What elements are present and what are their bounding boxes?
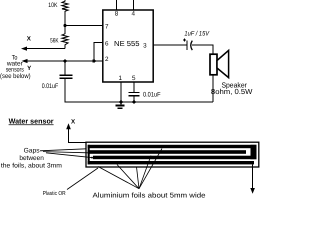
foil right vertical	[251, 145, 257, 159]
speaker cone	[217, 50, 229, 77]
arrow Y down water sensor	[252, 164, 254, 189]
svg-text:Gaps: Gaps	[24, 147, 41, 154]
wire X to 56K	[25, 48, 65, 50]
label To water sensors (see below)	[0, 55, 31, 80]
svg-text:8: 8	[115, 10, 119, 17]
foil left vertical	[88, 145, 90, 165]
svg-text:8ohm, 0.5W: 8ohm, 0.5W	[211, 87, 253, 96]
wire pin2 horizontal Y	[26, 60, 104, 62]
svg-text:X: X	[71, 118, 76, 125]
svg-text:10K: 10K	[48, 2, 58, 9]
capacitor C3 1uF plate curved	[191, 41, 193, 51]
wire pin6 L	[94, 42, 103, 61]
foil bar 3	[93, 156, 257, 160]
pin labels	[105, 10, 147, 82]
svg-text:the foils, about 3mm: the foils, about 3mm	[1, 162, 63, 169]
pointer line plastic	[67, 168, 98, 190]
plus sign C3	[183, 39, 186, 41]
svg-text:Water sensor: Water sensor	[9, 116, 54, 125]
pin 1 wire to ground	[120, 82, 122, 102]
resistor R1 10K	[64, 0, 66, 1]
svg-text:NE 555: NE 555	[114, 39, 140, 48]
svg-text:1uF / 15V: 1uF / 15V	[184, 31, 209, 38]
svg-text:4: 4	[131, 10, 135, 17]
svg-text:5: 5	[132, 75, 136, 82]
foil bar 1 top	[88, 145, 257, 148]
svg-text:1: 1	[118, 75, 122, 82]
pointer lines gaps	[40, 149, 99, 159]
foil bar 3 end square	[91, 157, 93, 159]
capacitor C2 lead bottom	[133, 96, 135, 102]
node junction pin5 rail	[132, 100, 135, 103]
svg-text:Aluminium foils about 5mm wide: Aluminium foils about 5mm wide	[93, 191, 206, 199]
pointer lines aluminium foils	[98, 149, 162, 189]
node junction pin6 on Y wire	[92, 59, 95, 62]
ground	[120, 102, 122, 105]
label Gaps between the foils about 3mm	[1, 147, 63, 169]
svg-text:6: 6	[105, 40, 109, 47]
foil bar 4 bottom	[88, 161, 254, 164]
resistor R2 56K	[64, 25, 66, 34]
svg-text:0.01uF: 0.01uF	[143, 92, 161, 99]
svg-text:2: 2	[105, 56, 109, 63]
foil bar 2	[88, 150, 246, 154]
capacitor C1 lead bottom and rail to left	[65, 78, 213, 102]
IC U1 NE555 box	[103, 10, 153, 82]
svg-text:0.01uF: 0.01uF	[42, 83, 59, 90]
pin 4 wire	[132, 0, 134, 10]
svg-text:Y: Y	[27, 65, 32, 72]
node junction pin1 rail	[119, 100, 122, 103]
svg-text:(see below): (see below)	[0, 73, 31, 80]
capacitor C1 0.01uF plates	[60, 74, 73, 76]
pin 3 wire	[153, 44, 186, 46]
pin 8 wire	[116, 0, 118, 10]
svg-text:between: between	[19, 155, 44, 162]
speaker wire bottom	[212, 75, 214, 102]
svg-text:X: X	[27, 36, 32, 43]
speaker driver box	[210, 54, 217, 75]
arrowhead Y wire	[22, 59, 28, 63]
arrow X up water sensor	[66, 123, 71, 129]
arrowhead X wire	[21, 47, 27, 51]
svg-text:3: 3	[143, 42, 147, 49]
node junction 10K/56K/pin7	[63, 24, 66, 27]
svg-text:Plastic OR: Plastic OR	[43, 190, 66, 197]
capacitor C2 0.01uF plates	[129, 92, 140, 94]
wire cap to speaker	[192, 45, 213, 54]
node junction cap C1 on Y wire	[63, 59, 66, 62]
svg-text:56K: 56K	[50, 38, 59, 45]
capacitor C1 0.01uF lead top	[64, 61, 66, 75]
sensor plastic outer border	[86, 142, 259, 167]
pin 5 wire	[133, 82, 135, 92]
svg-text:7: 7	[105, 23, 109, 30]
capacitor C3 1uF plate straight	[186, 41, 188, 51]
wire pin7 horizontal	[65, 24, 103, 26]
